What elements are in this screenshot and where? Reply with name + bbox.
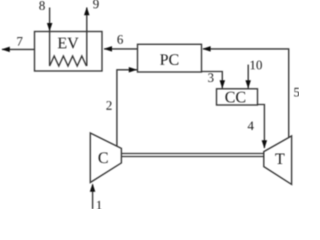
wire stream 7 — [2, 48, 35, 50]
arrowhead stream 6 into EV — [104, 46, 112, 52]
stream number 6 — [117, 35, 123, 44]
stream number 1 — [97, 201, 102, 210]
stream number 2 — [106, 101, 111, 110]
EV coil zigzag — [50, 56, 87, 66]
arrowhead stream 2 into PC — [129, 67, 137, 73]
arrowhead stream 7 left — [2, 47, 10, 53]
stream number 3 — [208, 73, 213, 82]
label T — [275, 154, 284, 164]
stream number 9 — [93, 0, 99, 8]
label EV — [58, 38, 79, 49]
EV internal tube (stream 8 leg inside EV) — [49, 32, 51, 67]
arrowhead stream 8 into EV — [47, 23, 53, 31]
wire stream 1 — [92, 185, 94, 210]
stream number 8 — [39, 1, 45, 10]
wire stream 2 — [117, 70, 137, 147]
compressor C body — [90, 133, 121, 183]
stream number 7 — [17, 37, 22, 46]
label C — [99, 152, 108, 163]
label CC — [225, 92, 245, 103]
PC box — [138, 44, 202, 72]
shaft upper line — [121, 153, 263, 155]
stream number 5 — [294, 88, 299, 97]
label PC — [160, 54, 178, 65]
arrowhead stream 5 into PC — [202, 46, 210, 52]
stream number 10 — [251, 61, 262, 70]
arrowhead stream 3 into CC — [220, 80, 226, 88]
wire stream 4 — [258, 105, 265, 149]
wire stream 10 — [247, 65, 249, 89]
wire stream 5 — [203, 49, 289, 138]
turbine T body — [264, 136, 292, 185]
shaft lower line — [121, 156, 263, 158]
arrowhead stream 1 into C — [90, 183, 96, 191]
combustion chamber CC box — [217, 89, 258, 105]
arrowhead stream 10 into CC — [245, 80, 251, 88]
arrowhead stream 4 into T — [262, 140, 268, 148]
evaporator EV box — [35, 32, 103, 72]
wire stream 9 — [86, 8, 88, 32]
arrowhead stream 9 up — [84, 7, 90, 15]
wire stream 6 — [104, 48, 138, 50]
wire stream 3 — [202, 72, 223, 89]
wire stream 8 — [49, 8, 51, 32]
stream number 4 — [248, 121, 254, 130]
EV internal tube (stream 9 leg inside EV) — [86, 32, 88, 67]
